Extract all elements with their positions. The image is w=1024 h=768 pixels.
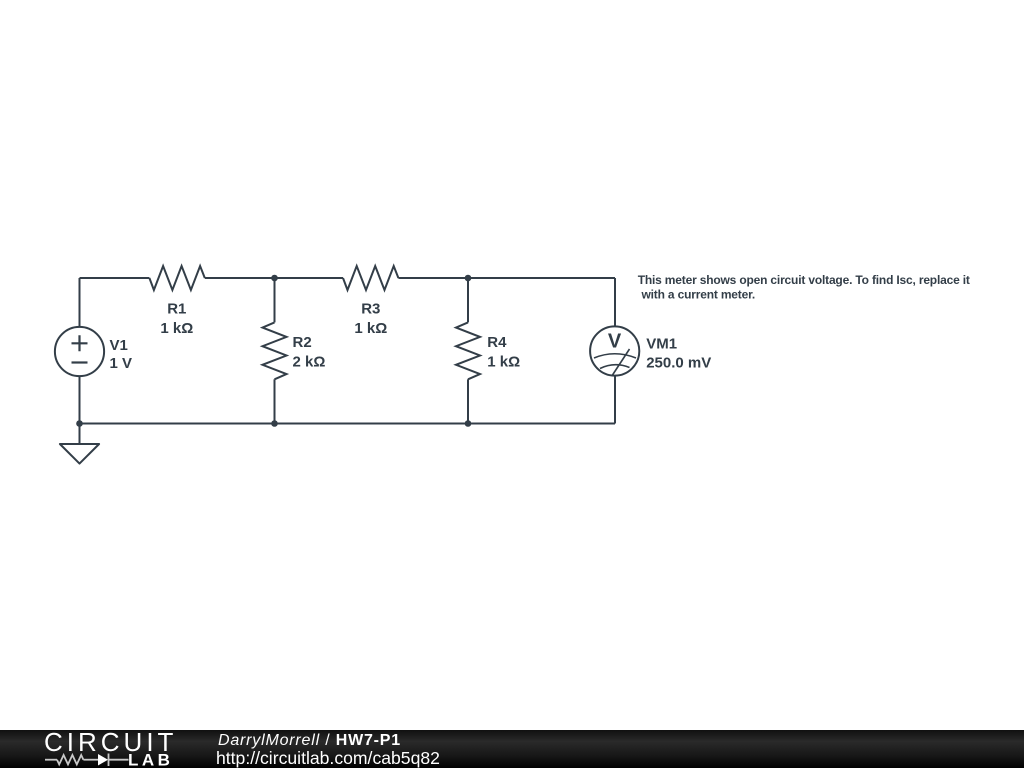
- svg-text:This meter shows open circuit: This meter shows open circuit voltage. T…: [638, 273, 970, 287]
- svg-text:R4: R4: [487, 334, 507, 351]
- wire R1 to node A: [205, 277, 275, 279]
- svg-text:with a current meter.: with a current meter.: [641, 288, 756, 302]
- label R4: [487, 334, 507, 351]
- value label R4 1 kOhm: [487, 354, 520, 371]
- voltmeter VM1 V symbol: [608, 330, 622, 352]
- CircuitLab logo: [0, 0, 200, 768]
- wire R4 bottom lead: [467, 379, 469, 423]
- voltage source V1: [55, 327, 104, 376]
- wire node B to top right corner: [468, 277, 615, 279]
- svg-text:1 kΩ: 1 kΩ: [354, 320, 387, 337]
- wire left rail above V1: [79, 278, 81, 327]
- value label R1 1 kOhm: [160, 320, 193, 337]
- wire R2 bottom lead: [274, 379, 276, 423]
- svg-text:R2: R2: [293, 334, 312, 351]
- wire R3 to node B: [398, 277, 468, 279]
- node B junction dot: [465, 275, 472, 282]
- svg-text:R3: R3: [361, 300, 380, 317]
- wire top rail left segment: [80, 277, 150, 279]
- resistor R4: [456, 322, 480, 379]
- label R2: [293, 334, 312, 351]
- annotation note line 2: [641, 288, 756, 302]
- svg-text:LAB: LAB: [128, 750, 173, 768]
- resistor R1: [149, 266, 204, 290]
- svg-text:VM1: VM1: [646, 336, 677, 353]
- wire node A to R3: [275, 277, 344, 279]
- value label R3 1 kOhm: [354, 320, 387, 337]
- label V1: [110, 337, 128, 354]
- voltmeter VM1: [590, 326, 639, 375]
- wire R4 top lead: [467, 278, 469, 322]
- value label VM1 250.0 mV: [646, 355, 711, 372]
- resistor R2: [263, 322, 287, 379]
- wire R2 top lead: [274, 278, 276, 322]
- label VM1: [646, 336, 677, 353]
- svg-text:1 kΩ: 1 kΩ: [487, 354, 520, 371]
- bottom node under R2 junction dot: [271, 420, 278, 427]
- svg-text:V: V: [608, 330, 622, 352]
- label R1: [167, 300, 186, 317]
- bottom node under R4 junction dot: [465, 420, 472, 427]
- wire right rail above VM1: [614, 278, 616, 326]
- ground node junction dot: [76, 420, 83, 427]
- resistor R3: [343, 266, 398, 290]
- value label R2 2 kOhm: [293, 354, 326, 371]
- wire right rail below VM1: [614, 376, 616, 424]
- wire left rail below V1: [79, 376, 81, 423]
- footer bar: [0, 730, 1024, 768]
- svg-text:250.0 mV: 250.0 mV: [646, 355, 711, 372]
- node A junction dot: [271, 275, 278, 282]
- label R3: [361, 300, 380, 317]
- svg-text:2 kΩ: 2 kΩ: [293, 354, 326, 371]
- footer credit line: [218, 733, 401, 749]
- footer url line: [216, 750, 440, 767]
- wire bottom rail: [80, 423, 616, 425]
- ground: [60, 424, 99, 464]
- annotation note line 1: [638, 273, 970, 287]
- value label V1 1 V: [110, 355, 133, 372]
